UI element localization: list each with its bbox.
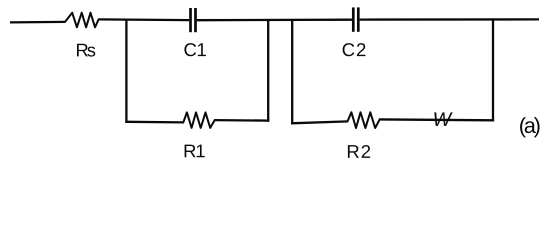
label R2 xyxy=(348,145,370,158)
label R1 xyxy=(185,145,205,158)
wire: loop 1 right vertical xyxy=(267,19,269,122)
wire: loop 2 bottom left lead xyxy=(291,121,348,123)
wire: loop 1 bottom left lead xyxy=(125,121,184,124)
wire: C2 to output xyxy=(360,18,539,21)
wire: loop 1 bottom right lead xyxy=(214,119,269,122)
resistor Rs xyxy=(65,13,99,28)
node A: loop 1 left vertical wire xyxy=(125,20,127,123)
resistor R2 xyxy=(348,112,380,128)
wire: loop 2 bottom right lead (through Warburg) xyxy=(379,118,494,121)
Warburg element W xyxy=(434,112,452,125)
capacitor C2 xyxy=(353,7,358,31)
wire: input lead to Rs xyxy=(10,21,66,24)
wire: loop 2 left vertical xyxy=(291,19,293,124)
wire: loop 2 right vertical xyxy=(492,18,494,121)
label C1 xyxy=(184,43,206,56)
label (a) xyxy=(520,117,540,137)
resistor R1 xyxy=(183,112,214,128)
label Rs xyxy=(77,44,95,57)
capacitor C1 xyxy=(191,8,196,32)
wire: Rs to C1 left plate xyxy=(98,18,189,21)
label C2 xyxy=(343,43,366,56)
wire: C1 to C2 xyxy=(197,19,352,22)
